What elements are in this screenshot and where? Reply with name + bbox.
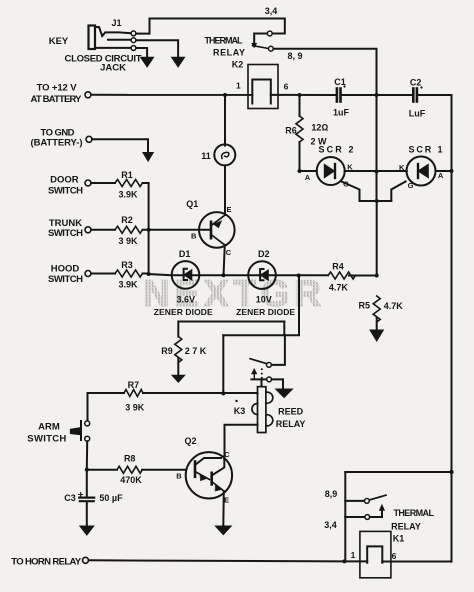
svg-text:3 9K: 3 9K <box>118 236 138 246</box>
svg-text:C: C <box>226 248 232 257</box>
ground arrow R9 <box>172 375 185 382</box>
R8 wire from node <box>87 469 117 471</box>
SCR cathode line between SCRs <box>345 170 407 172</box>
K1 heater element <box>367 546 382 562</box>
resistor R6 <box>296 116 303 142</box>
node hood line junction <box>147 272 151 276</box>
svg-text:R8: R8 <box>124 454 136 464</box>
K1 8,9 contact <box>365 499 370 504</box>
SCR2 circle <box>317 157 345 185</box>
svg-text:50 µF: 50 µF <box>99 493 123 503</box>
node Q1 collector junction <box>222 273 226 277</box>
node bus-lamp <box>223 93 227 97</box>
zener diode D1 circle <box>172 261 200 289</box>
R4 wire to node <box>349 275 377 277</box>
lamp I1 circle <box>214 144 235 165</box>
svg-text:SCR 1: SCR 1 <box>409 145 443 155</box>
svg-text:C2: C2 <box>410 78 422 88</box>
wire J1 sleeve contact to ground <box>136 48 147 57</box>
resistor R2 <box>115 226 143 233</box>
SCR2 cathode bar <box>334 164 336 178</box>
svg-text:JACK: JACK <box>100 63 126 74</box>
Q2 collector stroke 1 <box>195 458 221 465</box>
svg-text:RELAY: RELAY <box>391 522 421 532</box>
Q2 collector stroke 2 <box>212 456 225 476</box>
svg-text:G: G <box>408 181 414 190</box>
SCR1 pin labels <box>399 163 444 190</box>
resistor R4 <box>328 272 356 279</box>
reed coil loop top right <box>266 392 273 403</box>
R8 wire to Q2 base <box>142 469 186 471</box>
Q2 pin labels <box>176 450 230 504</box>
reed capsule top lead <box>261 379 263 386</box>
R6 wire from bus <box>299 95 301 116</box>
K1 3,4 wire to arrow <box>370 510 382 518</box>
node D2-SCR2 junction <box>297 274 301 278</box>
svg-text:R6: R6 <box>285 126 297 136</box>
gate yoke bar <box>360 200 392 202</box>
Q2 emitter stroke 2 <box>212 482 224 491</box>
closed-circuit jack J1 body <box>89 26 132 50</box>
lamp wire to Q1 emitter <box>224 165 226 215</box>
zener line hood to D1 Q1 D2 R4 <box>149 274 328 275</box>
svg-text:3.9K: 3.9K <box>118 190 138 200</box>
Q1 base bar <box>210 222 213 238</box>
capacitor C1 plates <box>337 89 341 102</box>
svg-text:K: K <box>399 163 405 172</box>
lamp I1 filament <box>222 152 229 158</box>
svg-text:12Ω: 12Ω <box>311 123 328 133</box>
svg-text:1uF: 1uF <box>333 108 350 118</box>
door switch wire <box>91 182 115 184</box>
hood switch wire <box>91 273 115 275</box>
svg-text:6: 6 <box>392 551 397 561</box>
wire J1 ring contact to ground <box>136 40 178 57</box>
svg-text:10V: 10V <box>256 295 272 305</box>
K1 switch vertical <box>344 472 346 561</box>
svg-text:8,9: 8,9 <box>325 489 338 499</box>
svg-text:RELAY: RELAY <box>276 419 306 429</box>
svg-text:REED: REED <box>278 407 304 417</box>
wire J1 tip contact to 3,4 line <box>136 18 285 33</box>
svg-text:1: 1 <box>351 550 356 560</box>
SCR1 circle <box>407 157 436 186</box>
svg-text:1: 1 <box>236 81 241 91</box>
resistor R9 <box>175 337 182 363</box>
svg-text:J1: J1 <box>111 18 121 28</box>
K2 switch arm <box>253 46 269 49</box>
hood switch terminal <box>85 271 91 277</box>
K2 heater element <box>252 80 270 104</box>
svg-text:A: A <box>438 171 444 180</box>
actuation arrow K3 <box>253 374 255 379</box>
Q1 collector stroke <box>211 235 225 245</box>
svg-text:4.7K: 4.7K <box>384 301 404 311</box>
reed lower contact wire <box>251 378 266 380</box>
reed switch arm <box>250 359 266 364</box>
node right rail 8,9 <box>449 470 453 474</box>
node yoke center <box>375 199 379 203</box>
svg-text:AT BATTERY: AT BATTERY <box>31 94 83 105</box>
SCR2 pin labels <box>305 163 354 189</box>
node cathode-line junction <box>375 170 379 174</box>
wire lower contact to ground <box>272 379 283 388</box>
svg-text:R3: R3 <box>121 260 133 270</box>
right vertical rail <box>451 95 453 562</box>
horn relay terminal <box>83 557 89 563</box>
reed switch upper contact <box>267 363 272 368</box>
TO GND wire <box>92 139 148 153</box>
+12V bus wire <box>91 94 252 96</box>
svg-text:Q1: Q1 <box>186 199 198 209</box>
svg-text:R9: R9 <box>161 346 173 356</box>
ground arrow Q2 <box>215 526 231 535</box>
D1 triangle <box>184 270 192 280</box>
lamp I1 wire from bus <box>224 95 226 146</box>
R3 wire to node <box>143 273 149 275</box>
K1 wire pin6 to right rail <box>382 561 451 563</box>
R7 line to reed coil <box>143 393 258 394</box>
K1 8,9 switch arm <box>369 495 386 500</box>
ground arrow reed <box>276 389 293 398</box>
reed coil loop left <box>252 404 258 415</box>
R6 wire to SCR2 anode node <box>299 142 301 171</box>
node SCR1 anode at right rail <box>450 169 454 173</box>
svg-text:SWITCH: SWITCH <box>48 228 83 239</box>
ground arrow battery-minus <box>143 153 153 162</box>
svg-text:C1: C1 <box>334 77 346 87</box>
arm switch top contact <box>85 421 90 426</box>
svg-text:C: C <box>224 450 230 459</box>
C3 wire to ground <box>86 502 88 528</box>
resistor R7 <box>124 390 143 397</box>
Q2 emitter stroke 1 <box>195 472 210 480</box>
svg-text:R2: R2 <box>121 215 133 225</box>
svg-text:G: G <box>343 180 349 189</box>
wire arm switch to R8 node <box>86 441 88 469</box>
wire lower-line left end down to R7 node <box>222 335 224 393</box>
svg-text:D2: D2 <box>258 249 270 259</box>
actuation arrowhead K3 <box>252 369 257 374</box>
ground arrow under J1 sleeve <box>141 57 154 67</box>
svg-text:3.9K: 3.9K <box>118 280 138 290</box>
svg-text:8, 9: 8, 9 <box>287 51 302 61</box>
svg-text:A: A <box>305 173 311 182</box>
capacitor C3 plates <box>79 498 94 502</box>
door switch terminal <box>85 180 91 186</box>
node SCR2 anode <box>298 169 302 173</box>
Q2 emitter wire down <box>222 491 225 527</box>
transistor Q1 circle <box>199 212 235 248</box>
svg-text:ARM: ARM <box>38 422 60 433</box>
zener diode D2 circle <box>248 261 276 289</box>
K1 8,9 contact wire <box>345 500 364 502</box>
svg-text:3,4: 3,4 <box>265 6 278 16</box>
node bus-K2switch <box>375 93 379 97</box>
wire yoke to R4/R5 node <box>376 201 378 276</box>
node R4-R5 junction <box>375 274 379 278</box>
svg-text:2 7 K: 2 7 K <box>185 346 207 356</box>
svg-text:SWITCH: SWITCH <box>48 185 83 196</box>
R5 wire below <box>376 318 378 331</box>
arm switch movable bar <box>80 421 82 440</box>
svg-text:TO +12 V: TO +12 V <box>37 82 78 93</box>
svg-text:KEY: KEY <box>49 36 69 47</box>
thermal relay K2 box <box>248 65 278 109</box>
svg-text:6: 6 <box>284 82 289 92</box>
svg-text:HOOD: HOOD <box>51 263 80 274</box>
wire node to C3 <box>86 470 88 497</box>
node trunk line junction <box>147 228 151 232</box>
svg-text:RELAY: RELAY <box>213 48 245 58</box>
C1 polarity dot <box>343 85 345 87</box>
SCR2 anode wire <box>300 170 317 172</box>
D2 zener bar <box>260 269 263 280</box>
svg-text:3,4: 3,4 <box>324 520 337 530</box>
ground arrow C3 <box>80 526 94 535</box>
resistor R3 <box>115 270 143 277</box>
transistor Q2 circle <box>186 452 232 498</box>
bus C2 to right corner <box>417 94 451 96</box>
svg-text:11: 11 <box>201 151 211 161</box>
svg-text:R5: R5 <box>359 301 371 311</box>
svg-text:TO HORN RELAY: TO HORN RELAY <box>11 557 82 568</box>
reed coil bottom lead to Q2 collector <box>225 425 258 456</box>
svg-text:R4: R4 <box>332 262 344 272</box>
K2 switch contact circles <box>267 31 273 51</box>
K1 switch top line <box>345 471 451 473</box>
SCR2 diode triangle <box>324 164 334 177</box>
svg-text:K: K <box>347 163 353 172</box>
K1 actuation arrowhead <box>379 505 384 511</box>
svg-text:SCR 2: SCR 2 <box>319 145 354 155</box>
D1 zener bar <box>184 269 187 280</box>
svg-text:K1: K1 <box>393 534 405 544</box>
svg-text:E: E <box>224 495 229 504</box>
K1 3,4 contact wire <box>345 516 365 518</box>
Q2 base bar 2 <box>210 473 213 485</box>
svg-text:THERMAL: THERMAL <box>205 36 244 46</box>
svg-text:B: B <box>176 472 182 481</box>
svg-text:E: E <box>226 205 231 214</box>
svg-text:SWITCH: SWITCH <box>48 274 83 285</box>
K2 switch pivot arrowhead <box>252 43 257 48</box>
K3 polarity dot <box>235 400 237 402</box>
svg-text:R1: R1 <box>121 170 133 180</box>
svg-text:SWITCH: SWITCH <box>27 433 66 444</box>
TO GND terminal circle <box>86 136 92 142</box>
svg-text:C3: C3 <box>64 493 76 503</box>
svg-text:470K: 470K <box>120 475 142 485</box>
resistor R5 <box>373 296 380 322</box>
vertical from bus to SCR cathode line <box>376 95 378 201</box>
arm switch bottom contact <box>85 436 90 441</box>
node R7 junction <box>221 391 225 395</box>
SCR1 cathode bar <box>417 164 419 178</box>
capacitor C2 plates <box>413 89 417 102</box>
J1 contact circles <box>131 31 136 50</box>
SCR2 gate lead <box>342 182 360 202</box>
C2 polarity dot <box>420 86 422 88</box>
wire R9 top line <box>178 322 284 337</box>
node horn-K1 junction <box>342 559 346 563</box>
K1 3,4 contact <box>365 515 370 520</box>
reed relay capsule <box>258 387 266 433</box>
reed coil loop bottom right <box>266 415 273 426</box>
Q2 emitter arrow 2 <box>215 484 223 491</box>
mechanical link dots <box>261 368 263 379</box>
SCR1 gate lead <box>391 182 405 202</box>
D2 triangle <box>260 270 268 280</box>
C3 polarity plus <box>79 493 83 497</box>
Q2 base bar 1 <box>194 462 197 477</box>
trunk switch terminal <box>85 227 91 233</box>
thermal relay K2 switch wire from 3,4 <box>254 34 272 45</box>
Q1 pin labels <box>191 205 232 257</box>
R7 wire left corner to arm switch <box>88 393 125 421</box>
wire 8,9 to bus <box>273 49 376 95</box>
svg-text:ZENER DIODE: ZENER DIODE <box>154 307 213 317</box>
svg-text:(BATTERY-): (BATTERY-) <box>31 138 83 149</box>
wire lower line D2node to K3 branch <box>223 276 299 336</box>
horn relay line <box>89 560 368 561</box>
svg-text:4.7K: 4.7K <box>329 283 349 293</box>
svg-text:3.6V: 3.6V <box>177 295 196 305</box>
svg-text:LuF: LuF <box>409 109 426 119</box>
R2 wire to Q1 base <box>143 229 212 231</box>
SCR1 anode wire <box>436 170 452 172</box>
Q1 collector wire down <box>224 245 225 275</box>
trunk switch wire <box>91 229 115 231</box>
bus between C1 and C2 <box>342 94 412 96</box>
svg-text:Q2: Q2 <box>184 436 196 446</box>
Q1 emitter arrow (PNP) <box>214 221 222 228</box>
arm switch plunger <box>70 428 80 435</box>
ground arrow under J1 ring <box>172 57 185 67</box>
R1 wire to vertical <box>143 182 149 184</box>
Q2 emitter arrow 1 <box>200 474 208 481</box>
node R8 junction <box>85 468 89 472</box>
SCR1 diode triangle <box>418 164 428 177</box>
R9 wire below <box>177 359 179 376</box>
wire to reed switch upper contact <box>271 335 285 365</box>
svg-text:R7: R7 <box>128 380 140 390</box>
svg-text:D1: D1 <box>179 249 191 259</box>
thermal relay K1 box <box>360 531 391 577</box>
ground arrow R5 <box>370 330 383 341</box>
svg-text:3 9K: 3 9K <box>125 403 145 413</box>
+12V terminal circle <box>85 92 91 98</box>
reed switch lower contact <box>267 377 272 382</box>
svg-text:DOOR: DOOR <box>50 175 79 186</box>
resistor R1 <box>115 180 143 187</box>
svg-text:THERMAL: THERMAL <box>393 508 434 518</box>
svg-text:B: B <box>191 232 197 241</box>
node bus-R6 <box>298 93 302 97</box>
svg-text:ZENER DIODE: ZENER DIODE <box>236 307 295 317</box>
svg-text:K2: K2 <box>232 60 244 70</box>
wire jog down to lower line <box>283 322 285 336</box>
resistor R8 <box>117 466 142 473</box>
vertical R1-R2-R3 junction wire <box>148 183 150 274</box>
svg-text:K3: K3 <box>234 406 246 416</box>
Q1 emitter stroke <box>211 216 225 226</box>
